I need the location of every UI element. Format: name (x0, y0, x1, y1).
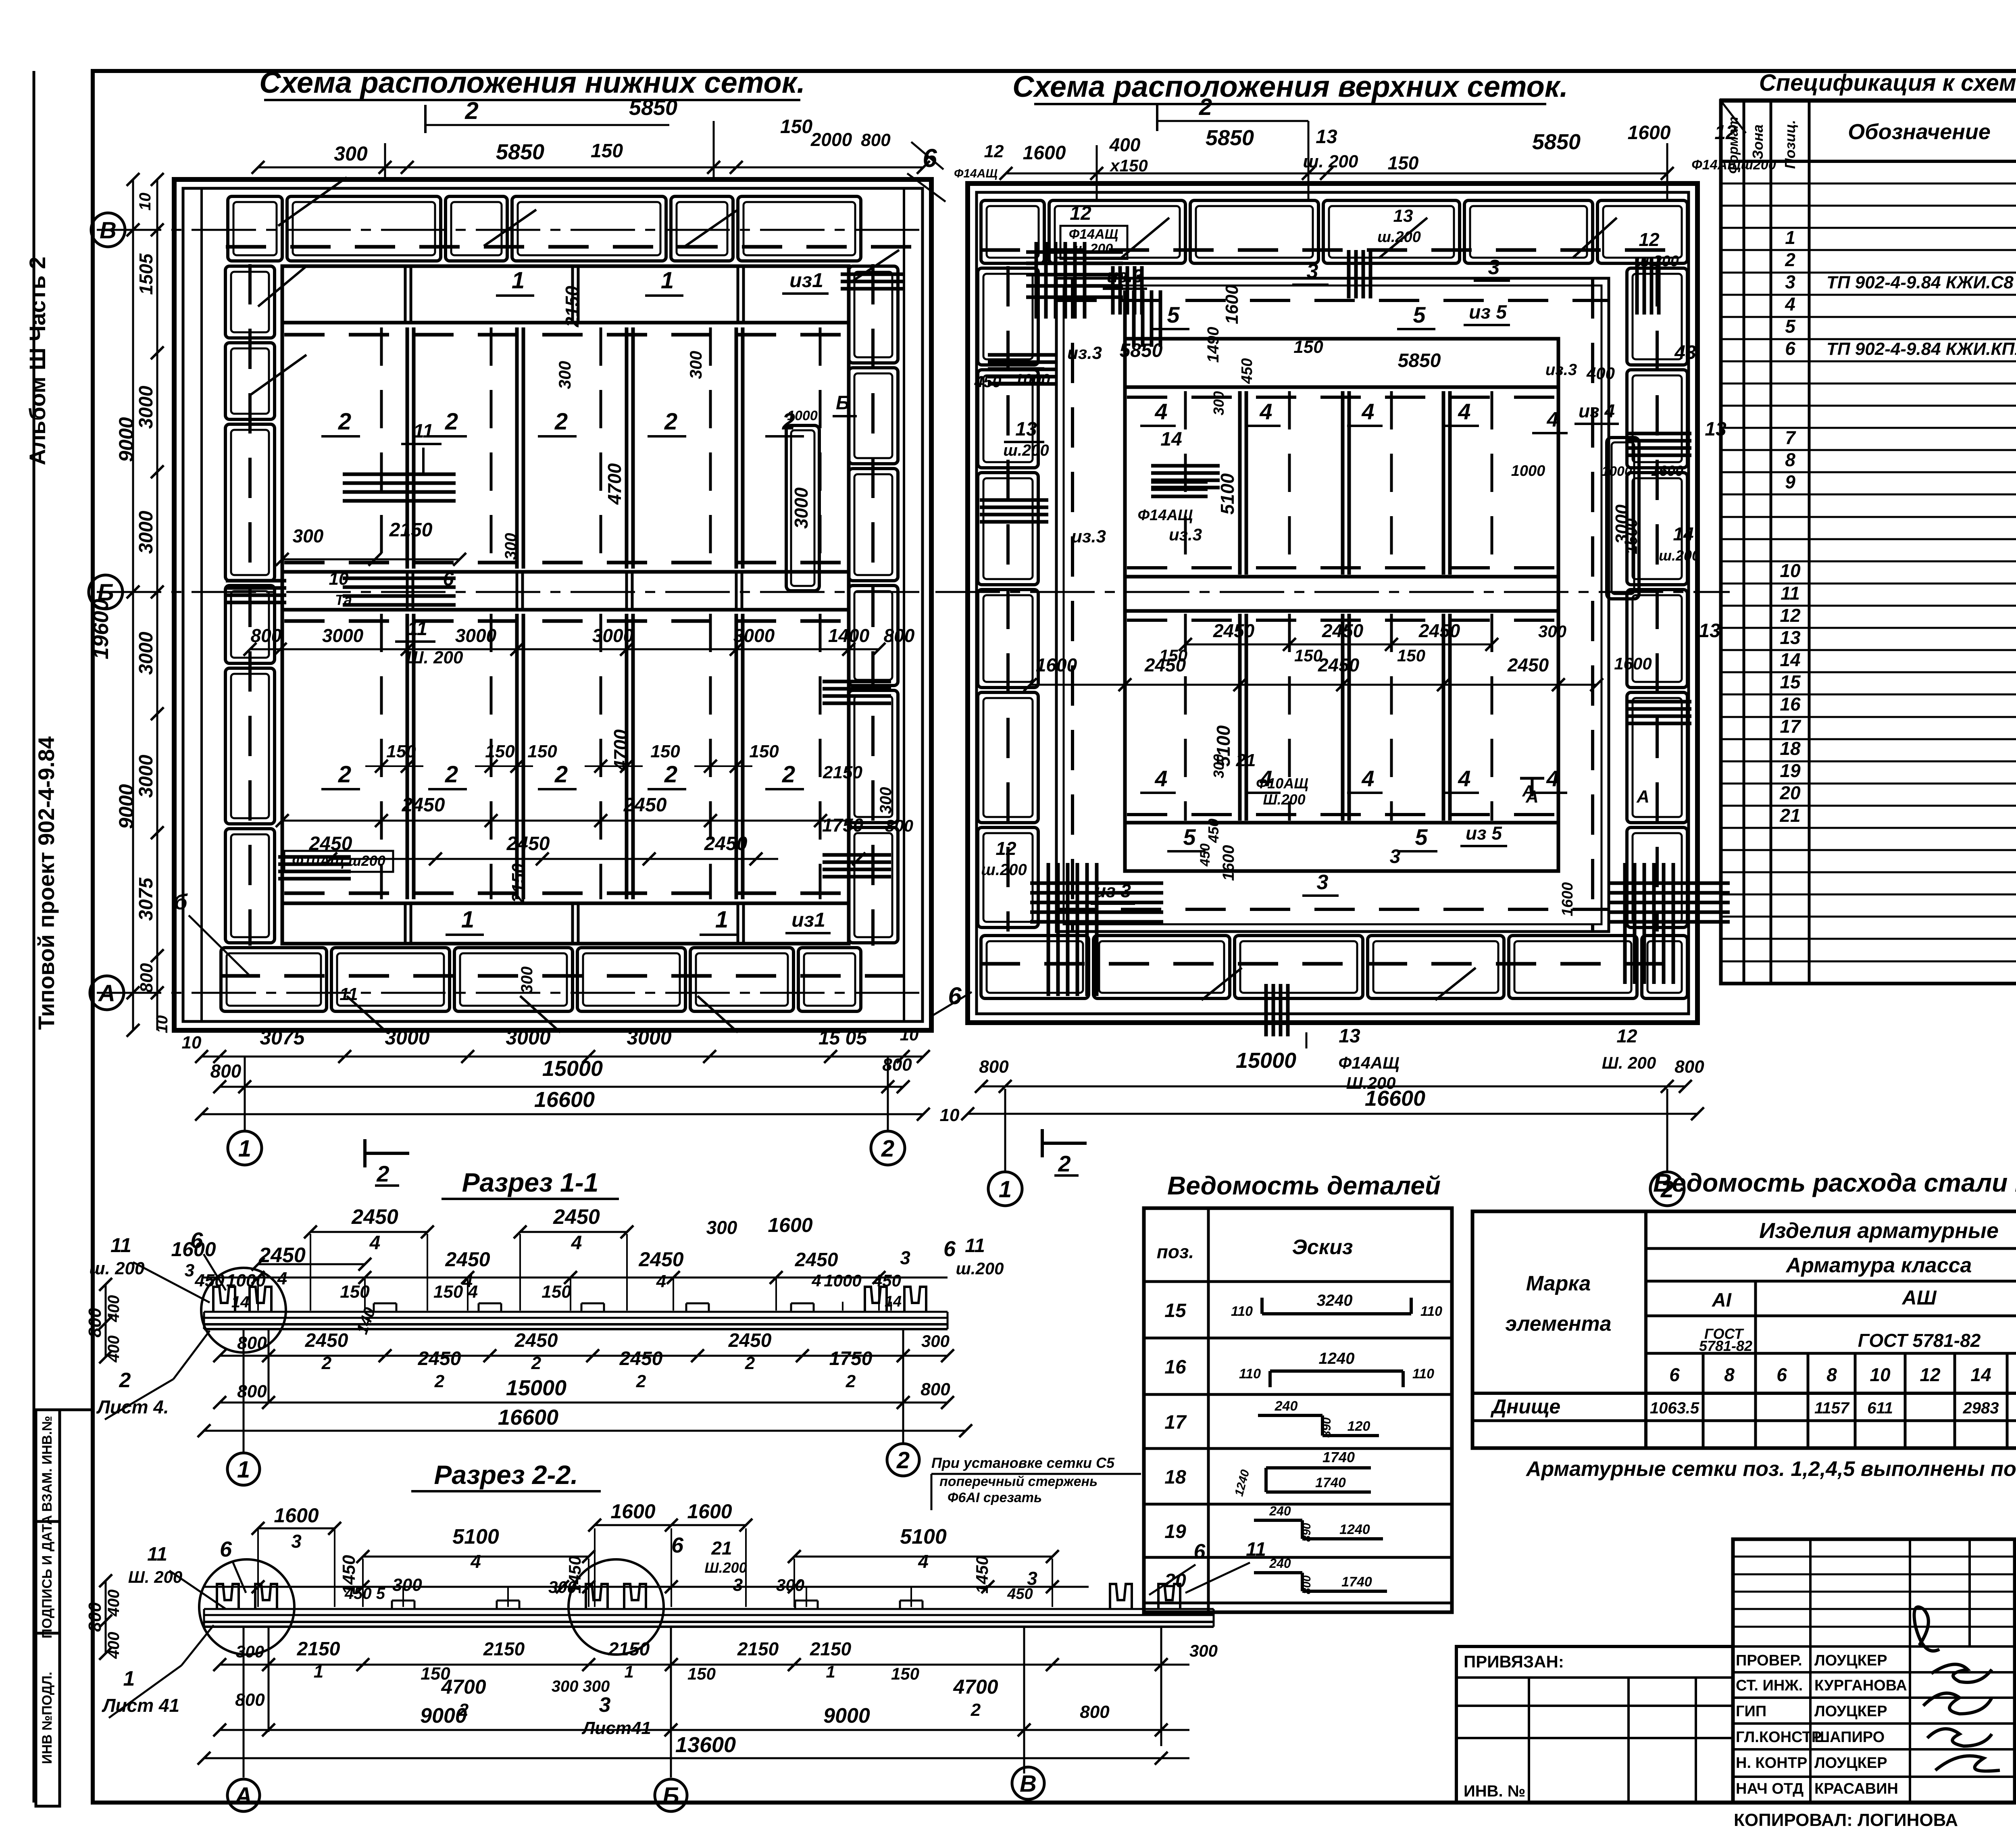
svg-text:890: 890 (1320, 1417, 1333, 1438)
svg-text:2150: 2150 (810, 1638, 852, 1659)
object name block (2015, 1707, 2016, 1710)
section 1-1 lower dims (220, 1355, 948, 1357)
svg-text:2450: 2450 (795, 1249, 838, 1271)
svg-text:16600: 16600 (1365, 1086, 1425, 1111)
svg-text:Арматура класса: Арматура класса (1785, 1254, 1972, 1277)
svg-text:10: 10 (1780, 560, 1801, 581)
svg-text:Зона: Зона (1749, 125, 1766, 160)
svg-text:ГЛ.КОНСТР: ГЛ.КОНСТР (1736, 1729, 1822, 1746)
svg-text:400: 400 (1586, 364, 1615, 383)
svg-text:4: 4 (1458, 766, 1470, 791)
section 1-1 right hats (865, 1287, 887, 1312)
svg-text:800: 800 (237, 1333, 267, 1353)
svg-text:150: 150 (340, 1282, 370, 1302)
svg-text:2: 2 (971, 1700, 981, 1720)
svg-text:2450: 2450 (514, 1330, 558, 1351)
svg-text:450: 450 (1198, 844, 1213, 867)
svg-text:5850: 5850 (1206, 126, 1254, 150)
svg-text:из 5: из 5 (1469, 302, 1507, 323)
svg-text:2: 2 (1199, 94, 1212, 120)
svg-text:6: 6 (190, 1228, 203, 1253)
svg-text:890: 890 (1300, 1523, 1313, 1542)
svg-text:5: 5 (1785, 316, 1796, 337)
svg-text:х150: х150 (1109, 156, 1148, 175)
svg-text:15: 15 (1780, 671, 1801, 692)
svg-text:Ш. 200: Ш. 200 (128, 1567, 183, 1586)
svg-text:ш.200: ш.200 (1635, 253, 1679, 270)
svg-text:3: 3 (291, 1531, 302, 1552)
svg-text:450: 450 (974, 373, 1002, 391)
section 2-2 detail circle left (199, 1559, 294, 1655)
right field dashed horizontals (1127, 396, 1556, 399)
svg-text:43: 43 (1674, 342, 1696, 363)
svg-text:800: 800 (210, 1061, 242, 1082)
title block (2015, 1539, 2016, 1602)
svg-text:21: 21 (1236, 750, 1256, 770)
svg-text:Позиц.: Позиц. (1782, 120, 1798, 169)
svg-text:10: 10 (329, 569, 349, 589)
svg-text:110: 110 (1412, 1366, 1434, 1382)
svg-text:Ф14АЩ: Ф14АЩ (1338, 1053, 1399, 1072)
svg-text:АШ: АШ (1901, 1286, 1937, 1309)
svg-text:2150: 2150 (737, 1638, 779, 1659)
svg-text:11: 11 (965, 1235, 985, 1257)
svg-text:6: 6 (923, 144, 937, 173)
svg-text:из1: из1 (791, 909, 825, 931)
svg-text:2: 2 (1785, 249, 1795, 270)
signatures squiggles (1914, 1607, 2000, 1771)
svg-text:240: 240 (1269, 1556, 1291, 1571)
svg-text:240: 240 (1275, 1398, 1298, 1414)
svg-text:3000: 3000 (135, 386, 157, 429)
svg-text:4: 4 (571, 1232, 582, 1254)
svg-text:3000: 3000 (791, 487, 812, 529)
section 1-1 witness verticals (310, 1234, 311, 1311)
svg-text:12: 12 (1639, 229, 1660, 250)
svg-text:9000: 9000 (823, 1704, 870, 1728)
svg-text:11: 11 (147, 1544, 167, 1565)
svg-text:5: 5 (1167, 302, 1180, 327)
svg-text:21: 21 (1779, 805, 1800, 826)
svg-text:21: 21 (711, 1538, 732, 1559)
svg-text:1740: 1740 (1322, 1449, 1355, 1465)
svg-text:5: 5 (1183, 824, 1196, 850)
svg-text:2450: 2450 (258, 1244, 306, 1267)
svg-text:150: 150 (1159, 646, 1187, 665)
svg-text:ш.200: ш.200 (1659, 547, 1700, 564)
svg-text:400: 400 (105, 1295, 123, 1323)
svg-text:ш.200: ш.200 (981, 861, 1027, 879)
svg-text:ш. 200: ш. 200 (1303, 152, 1359, 171)
svg-text:13: 13 (1316, 126, 1337, 148)
svg-text:7: 7 (1785, 427, 1796, 448)
svg-text:800: 800 (885, 816, 913, 835)
svg-text:12: 12 (984, 142, 1004, 161)
svg-text:поз.: поз. (1157, 1241, 1194, 1262)
svg-text:2: 2 (782, 761, 795, 788)
svg-text:11: 11 (1781, 583, 1800, 604)
svg-text:6: 6 (443, 569, 454, 590)
axis circle A (90, 976, 124, 1010)
svg-text:4: 4 (1785, 294, 1795, 315)
svg-text:5850: 5850 (496, 140, 544, 164)
svg-text:450: 450 (1239, 358, 1256, 384)
svg-text:450 5: 450 5 (344, 1585, 385, 1603)
svg-text:5: 5 (1415, 824, 1428, 850)
svg-text:1600: 1600 (610, 1500, 655, 1523)
sketch 15 (1262, 1312, 1411, 1315)
svg-text:2150: 2150 (562, 286, 583, 327)
svg-text:6: 6 (671, 1533, 684, 1557)
svg-text:5781-82: 5781-82 (1699, 1338, 1752, 1354)
project name block (2015, 1645, 2016, 1648)
section 2-2 axis circles (227, 1779, 260, 1811)
svg-text:Ф14АЩ: Ф14АЩ (1138, 507, 1193, 524)
svg-text:5850: 5850 (1398, 350, 1441, 371)
svg-text:2450: 2450 (1318, 654, 1360, 675)
svg-text:СТ. ИНЖ.: СТ. ИНЖ. (1736, 1677, 1803, 1694)
svg-text:3000: 3000 (385, 1026, 429, 1049)
svg-text:9000: 9000 (115, 784, 137, 829)
left plan left dims (132, 179, 134, 1030)
strip 1 dividers (404, 266, 407, 323)
svg-text:ГИП: ГИП (1736, 1703, 1766, 1720)
section 1-1 left vert dims (105, 1284, 107, 1357)
svg-text:14: 14 (1160, 429, 1182, 450)
svg-text:2450: 2450 (1418, 620, 1460, 641)
svg-text:2450: 2450 (402, 794, 445, 816)
svg-text:1: 1 (512, 267, 525, 294)
svg-text:1063.5: 1063.5 (1650, 1399, 1699, 1417)
svg-text:800: 800 (861, 130, 891, 150)
svg-text:Обозначение: Обозначение (1848, 120, 1991, 144)
svg-text:1: 1 (715, 907, 728, 933)
svg-text:300: 300 (392, 1575, 422, 1595)
right plan field verticals upper (1238, 391, 1242, 575)
upper field vertical panels (406, 327, 409, 569)
svg-text:2: 2 (464, 97, 478, 124)
left plan top dims (258, 167, 923, 169)
strip 5 lower (1125, 821, 1558, 825)
svg-text:1: 1 (624, 1662, 633, 1681)
svg-text:2: 2 (338, 761, 351, 788)
svg-text:Лист 41: Лист 41 (102, 1695, 179, 1716)
svg-text:300: 300 (236, 1642, 264, 1661)
svg-text:3075: 3075 (260, 1026, 305, 1049)
svg-text:12: 12 (996, 838, 1016, 859)
svg-text:12: 12 (1070, 203, 1091, 224)
svg-text:1: 1 (237, 1457, 250, 1483)
leader diagonals top band (278, 177, 347, 226)
svg-text:2: 2 (636, 1371, 646, 1391)
svg-text:4: 4 (1458, 399, 1470, 424)
svg-text:800: 800 (1080, 1702, 1110, 1722)
svg-text:2: 2 (881, 1136, 894, 1162)
right plan leader diagonals (1121, 218, 1169, 258)
right plan bottom band panels (981, 936, 1089, 998)
svg-text:Спецификация к схемам располож: Спецификация к схемам расположения армат… (1759, 70, 2016, 96)
left plan outer wall (174, 179, 931, 1030)
svg-text:11: 11 (413, 421, 433, 442)
svg-text:300: 300 (1210, 754, 1227, 778)
svg-text:ш.200: ш.200 (1003, 442, 1049, 459)
svg-text:3000: 3000 (135, 754, 157, 798)
svg-text:4: 4 (277, 1269, 287, 1288)
svg-text:А: А (234, 1783, 252, 1809)
svg-text:16600: 16600 (534, 1088, 595, 1112)
svg-text:150: 150 (1397, 646, 1425, 665)
svg-text:из.3: из.3 (1071, 527, 1106, 546)
right plan outer wall (968, 183, 1697, 1023)
svg-text:150 4: 150 4 (433, 1282, 478, 1302)
svg-text:Схема расположения верхних сет: Схема расположения верхних сеток. (1012, 70, 1568, 103)
svg-text:ПРИВЯЗАН:: ПРИВЯЗАН: (1464, 1652, 1564, 1671)
svg-text:3: 3 (1390, 846, 1401, 867)
svg-text:В: В (1020, 1771, 1037, 1797)
svg-text:300 300: 300 300 (552, 1678, 610, 1695)
svg-text:Ш.200: Ш.200 (704, 1559, 747, 1576)
svg-text:4: 4 (1547, 408, 1559, 431)
svg-text:2450: 2450 (623, 794, 667, 816)
steel table (1472, 1211, 2016, 1448)
svg-text:1750: 1750 (829, 1348, 873, 1369)
svg-text:110: 110 (1231, 1304, 1253, 1319)
svg-text:1450: 1450 (973, 1556, 991, 1593)
svg-text:150: 150 (541, 1282, 571, 1302)
svg-text:300: 300 (518, 967, 536, 994)
svg-text:4700: 4700 (441, 1676, 486, 1698)
svg-text:3000: 3000 (135, 511, 157, 554)
svg-text:8: 8 (1826, 1364, 1837, 1385)
svg-text:13: 13 (1393, 206, 1413, 226)
svg-text:1: 1 (999, 1176, 1012, 1203)
svg-text:АI: АI (1712, 1290, 1732, 1311)
svg-text:2150: 2150 (389, 519, 433, 541)
svg-text:Альбом Ш Часть 2: Альбом Ш Часть 2 (25, 256, 50, 465)
svg-text:800: 800 (235, 1690, 265, 1710)
svg-text:2: 2 (445, 761, 458, 788)
svg-text:4700: 4700 (610, 729, 631, 771)
svg-text:2: 2 (745, 1353, 755, 1373)
svg-text:4: 4 (918, 1551, 929, 1572)
svg-text:1600: 1600 (768, 1214, 812, 1236)
svg-text:ш. 200: ш. 200 (90, 1259, 145, 1278)
svg-text:300: 300 (293, 525, 324, 546)
section 2-2 detail circle mid (569, 1559, 664, 1655)
right plan left band panels (978, 268, 1038, 365)
svg-text:4: 4 (369, 1232, 381, 1254)
sketch 18 (1264, 1468, 1268, 1492)
svg-text:19600: 19600 (89, 599, 113, 659)
svg-text:17: 17 (1780, 716, 1801, 737)
svg-text:240: 240 (1269, 1504, 1291, 1518)
svg-text:13: 13 (1015, 419, 1037, 440)
svg-text:3000: 3000 (592, 625, 634, 646)
svg-text:3: 3 (599, 1693, 611, 1717)
svg-text:из 4: из 4 (1579, 400, 1615, 421)
strip 1 bottom half separator (282, 902, 849, 905)
svg-text:15 05: 15 05 (818, 1027, 867, 1049)
svg-text:б: б (174, 890, 188, 914)
svg-text:2450: 2450 (619, 1348, 663, 1369)
svg-text:2: 2 (1058, 1151, 1070, 1176)
svg-text:110: 110 (1420, 1304, 1442, 1319)
svg-text:300: 300 (548, 1578, 577, 1596)
svg-text:5850: 5850 (1120, 340, 1163, 361)
svg-text:150: 150 (591, 140, 623, 162)
section 2-2 slab (204, 1608, 1214, 1610)
svg-text:13: 13 (1339, 1025, 1360, 1047)
svg-text:6: 6 (1194, 1540, 1206, 1563)
svg-text:18: 18 (1164, 1467, 1186, 1488)
right plan hatch groups (1035, 242, 1038, 319)
svg-text:800: 800 (85, 1308, 105, 1338)
svg-text:800: 800 (1674, 1057, 1704, 1077)
svg-text:2: 2 (896, 1447, 910, 1473)
svg-text:ш.200: ш.200 (1074, 241, 1113, 256)
svg-text:10: 10 (1870, 1364, 1891, 1385)
svg-text:800: 800 (979, 1057, 1009, 1077)
svg-text:3000: 3000 (733, 625, 775, 646)
svg-text:150: 150 (749, 742, 779, 761)
svg-text:15000: 15000 (542, 1057, 603, 1081)
left plan bottom dims (202, 1056, 923, 1058)
svg-text:800: 800 (251, 625, 282, 646)
svg-text:ш.200: ш.200 (1377, 229, 1421, 246)
svg-text:3000: 3000 (322, 625, 364, 646)
svg-text:20: 20 (1164, 1570, 1186, 1592)
svg-text:5: 5 (1413, 302, 1426, 327)
axis B band lines (282, 570, 849, 574)
svg-text:из.3: из.3 (1169, 525, 1202, 544)
svg-text:из.3: из.3 (1107, 265, 1143, 286)
waffle hatch corners (1030, 882, 1163, 885)
svg-text:16: 16 (1164, 1357, 1186, 1378)
svg-text:2: 2 (664, 408, 677, 435)
svg-text:2450: 2450 (728, 1330, 772, 1351)
svg-text:17: 17 (1164, 1412, 1187, 1433)
svg-text:4: 4 (811, 1271, 821, 1290)
strip 5 upper (1125, 386, 1558, 389)
svg-text:2450: 2450 (445, 1248, 490, 1271)
svg-text:Ведомость деталей: Ведомость деталей (1167, 1171, 1441, 1200)
svg-text:1505: 1505 (135, 253, 156, 295)
svg-text:Ведомость расхода стали на эле: Ведомость расхода стали на элемент, кГ (1653, 1168, 2016, 1197)
svg-text:КРАСАВИН: КРАСАВИН (1814, 1780, 1898, 1797)
sketch 17 (1258, 1414, 1322, 1417)
svg-text:2450: 2450 (418, 1348, 461, 1369)
svg-text:1240: 1240 (1339, 1522, 1370, 1537)
section 2-2 left vert dims (105, 1581, 107, 1653)
svg-text:400: 400 (105, 1632, 123, 1659)
svg-text:3: 3 (1785, 271, 1795, 292)
svg-text:800: 800 (921, 1380, 950, 1399)
svg-text:2450: 2450 (506, 833, 550, 854)
left plan left band dashed line (248, 264, 252, 946)
right plan top dims (1006, 173, 1667, 175)
svg-text:5100: 5100 (900, 1525, 947, 1548)
svg-text:5850: 5850 (1532, 130, 1581, 154)
svg-text:800: 800 (237, 1382, 267, 1401)
svg-text:300: 300 (686, 351, 705, 379)
section 1-1 upper dims (310, 1231, 427, 1233)
svg-text:из.3: из.3 (1545, 361, 1577, 379)
svg-text:400: 400 (1109, 134, 1141, 155)
axis circles bottom left plan (228, 1131, 262, 1165)
svg-text:300: 300 (334, 142, 368, 165)
svg-text:2150: 2150 (508, 863, 528, 903)
svg-text:8: 8 (1724, 1364, 1735, 1385)
axis band dividers (406, 572, 409, 610)
svg-text:400: 400 (105, 1590, 123, 1617)
right plan right band panels (1627, 268, 1687, 365)
svg-text:13: 13 (1705, 419, 1727, 440)
svg-text:6: 6 (220, 1537, 232, 1561)
svg-text:300: 300 (1210, 391, 1227, 415)
left plan left band panels (225, 266, 275, 338)
svg-text:Ф10АЩ ш200: Ф10АЩ ш200 (292, 852, 385, 869)
svg-text:2150: 2150 (483, 1638, 525, 1659)
svg-text:ЛОУЦКЕР: ЛОУЦКЕР (1814, 1755, 1887, 1771)
hatch near axis B left (226, 579, 286, 583)
svg-text:450: 450 (873, 1271, 901, 1290)
svg-text:1400: 1400 (828, 625, 870, 646)
svg-text:Днище: Днище (1490, 1395, 1560, 1418)
svg-text:1740: 1740 (1341, 1574, 1372, 1590)
svg-text:150: 150 (485, 742, 515, 761)
svg-text:12: 12 (1780, 605, 1801, 626)
svg-text:3075: 3075 (135, 877, 157, 921)
svg-text:ГОСТ 5781-82: ГОСТ 5781-82 (1858, 1330, 1981, 1351)
svg-text:КОПИРОВАЛ: ЛОГИНОВА: КОПИРОВАЛ: ЛОГИНОВА (1734, 1810, 1958, 1830)
svg-text:10: 10 (153, 1015, 171, 1034)
section 1-1 dim chain row B (204, 1277, 948, 1279)
svg-text:2: 2 (434, 1371, 445, 1391)
section 2-2 lower dims (220, 1664, 1189, 1666)
svg-text:2450: 2450 (638, 1248, 683, 1271)
svg-text:ТП 902-4-9.84 КЖИ.КП1: ТП 902-4-9.84 КЖИ.КП1 (1826, 339, 2016, 359)
svg-text:1600: 1600 (1036, 654, 1077, 675)
svg-text:ЛОУЦКЕР: ЛОУЦКЕР (1814, 1703, 1887, 1720)
svg-text:450: 450 (1205, 819, 1222, 843)
svg-text:6: 6 (1776, 1364, 1787, 1385)
svg-text:150: 150 (527, 742, 557, 761)
svg-text:3: 3 (900, 1247, 910, 1268)
right plan inner field (1125, 339, 1558, 871)
150 dim pairs upper field (365, 765, 423, 767)
svg-text:Ш. 200: Ш. 200 (406, 648, 463, 667)
svg-text:При установке сетки С5: При установке сетки С5 (931, 1455, 1115, 1471)
svg-text:4: 4 (1361, 766, 1374, 791)
svg-text:800: 800 (1300, 1575, 1313, 1594)
svg-text:3: 3 (1488, 256, 1500, 279)
svg-text:1000: 1000 (1511, 463, 1545, 479)
svg-text:поперечный стержень: поперечный стержень (939, 1474, 1098, 1489)
title block bottom edge (1456, 1801, 2016, 1805)
axis band right plan (1125, 575, 1558, 579)
axis circle Б (89, 575, 123, 609)
svg-text:ПРОВЕР.: ПРОВЕР. (1736, 1652, 1802, 1669)
svg-text:3000: 3000 (135, 631, 157, 675)
svg-text:Типовой проект 902-4-9.84: Типовой проект 902-4-9.84 (33, 736, 59, 1030)
svg-text:5850: 5850 (629, 96, 677, 120)
svg-text:ЛОУЦКЕР: ЛОУЦКЕР (1814, 1652, 1887, 1669)
svg-text:2450: 2450 (1213, 620, 1255, 641)
svg-text:ИНВ №ПОДЛ.: ИНВ №ПОДЛ. (40, 1672, 55, 1764)
svg-text:400: 400 (105, 1336, 123, 1363)
axis line A (97, 992, 927, 994)
svg-text:КУРГАНОВА: КУРГАНОВА (1814, 1677, 1907, 1694)
